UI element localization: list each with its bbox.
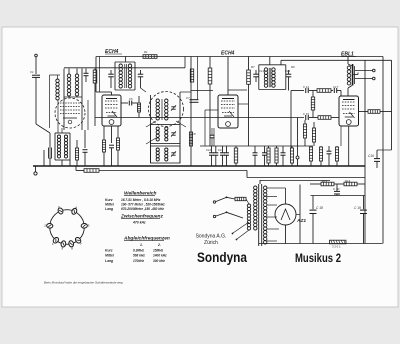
svg-text:1.: 1.	[140, 243, 143, 247]
svg-text:C10: C10	[206, 148, 212, 152]
svg-text:Lang: Lang	[105, 207, 114, 211]
svg-text:568 kHz: 568 kHz	[133, 254, 145, 258]
svg-text:C5: C5	[129, 97, 133, 101]
svg-text:C 30: C 30	[333, 187, 340, 191]
svg-text:ECH4: ECH4	[221, 51, 235, 57]
svg-text:R14: R14	[345, 179, 351, 183]
svg-text:2.: 2.	[157, 243, 161, 247]
svg-text:670-2000Meter ,150 -450 kHz: 670-2000Meter ,150 -450 kHz	[121, 207, 164, 211]
svg-text:Mittel: Mittel	[105, 202, 114, 206]
svg-text:C16: C16	[368, 154, 374, 158]
svg-text:R7: R7	[251, 65, 255, 69]
svg-text:15MHz: 15MHz	[153, 249, 164, 253]
svg-text:Kurz: Kurz	[105, 249, 113, 253]
svg-text:1400 kHz: 1400 kHz	[153, 254, 167, 258]
svg-text:C 19: C 19	[354, 206, 361, 210]
svg-text:C1: C1	[30, 70, 34, 74]
svg-text:C13: C13	[259, 69, 265, 73]
svg-text:C8: C8	[192, 132, 196, 136]
svg-text:R9: R9	[291, 65, 295, 69]
svg-text:C11: C11	[218, 148, 223, 152]
svg-text:AZ1: AZ1	[296, 218, 306, 224]
svg-text:Musikus 2: Musikus 2	[295, 253, 341, 265]
svg-text:C 14: C 14	[303, 85, 309, 89]
svg-text:3 2 0 1: 3 2 0 1	[332, 245, 341, 249]
svg-text:R13: R13	[322, 179, 328, 183]
svg-text:190- 577 Meter , 520-1565kHz: 190- 577 Meter , 520-1565kHz	[121, 202, 165, 206]
svg-text:Beim Musskauf habe die eingeba: Beim Musskauf habe die eingebauten Schal…	[44, 281, 123, 285]
svg-text:Sondyna A.G.: Sondyna A.G.	[196, 234, 227, 240]
svg-text:470 kHz: 470 kHz	[132, 221, 146, 225]
svg-text:R1: R1	[144, 50, 148, 54]
svg-text:Kurz: Kurz	[105, 198, 113, 202]
svg-text:Lang: Lang	[105, 259, 114, 263]
svg-text:C 18: C 18	[316, 206, 323, 210]
svg-text:300 kHz: 300 kHz	[153, 259, 165, 263]
svg-text:Zürich: Zürich	[204, 240, 218, 246]
svg-text:C17: C17	[333, 85, 339, 89]
svg-text:C 15: C 15	[303, 112, 309, 116]
svg-text:Mittel: Mittel	[105, 254, 114, 258]
svg-text:C14: C14	[285, 69, 291, 73]
svg-text:16.7-51 Meter , 5.9-18 MHz: 16.7-51 Meter , 5.9-18 MHz	[121, 198, 161, 202]
svg-text:Sondyna: Sondyna	[197, 250, 247, 265]
svg-text:170kHz: 170kHz	[133, 259, 144, 263]
svg-text:6.3MHz: 6.3MHz	[133, 249, 144, 253]
svg-text:C7: C7	[186, 96, 190, 100]
